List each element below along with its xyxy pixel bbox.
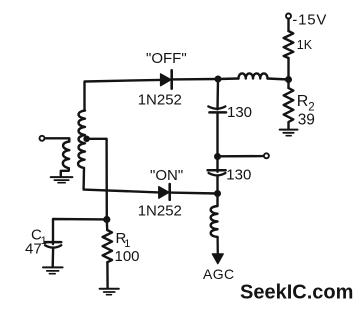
svg-text:47: 47	[25, 241, 42, 258]
transformer T1 primary	[63, 142, 69, 169]
wire	[106, 220, 109, 231]
diode "OFF" 1N252	[161, 70, 172, 88]
svg-text:1K: 1K	[297, 38, 313, 52]
wire	[216, 194, 218, 207]
wire	[45, 138, 69, 141]
transformer T1 secondary	[78, 111, 85, 169]
terminal output	[264, 153, 269, 158]
capacitor 130 (upper)	[208, 106, 226, 112]
wire	[61, 168, 69, 176]
wire	[216, 79, 219, 109]
label 100	[115, 248, 140, 265]
label R1	[116, 230, 131, 250]
label "OFF"	[146, 50, 187, 67]
label 130 (upper)	[227, 104, 252, 121]
resistor R2	[284, 88, 294, 129]
wire	[268, 79, 289, 80]
terminal input	[40, 136, 45, 141]
wire	[287, 80, 289, 89]
ground	[51, 177, 73, 183]
watermark SeekIC.com	[240, 282, 353, 304]
label -15V	[292, 11, 327, 28]
wire	[106, 262, 109, 287]
svg-text:1N252: 1N252	[138, 91, 182, 108]
ground	[43, 267, 63, 273]
resistor R1 100	[103, 230, 112, 262]
terminal -15V	[286, 14, 291, 19]
svg-text:100: 100	[115, 248, 140, 265]
label 39	[298, 112, 315, 129]
wire	[216, 176, 218, 194]
wire	[216, 157, 218, 172]
node E (C1/R1 junction)	[103, 216, 110, 223]
wire AGC arrow stem	[216, 237, 218, 255]
svg-text:-15V: -15V	[292, 11, 327, 28]
svg-text:130: 130	[227, 104, 252, 121]
AGC arrowhead	[212, 254, 223, 264]
svg-text:"ON": "ON"	[150, 167, 183, 184]
node center tap	[83, 136, 90, 143]
ground	[280, 130, 298, 136]
node C	[214, 153, 221, 160]
label AGC	[203, 266, 235, 282]
diode "ON" 1N252	[159, 184, 170, 200]
svg-text:"OFF": "OFF"	[146, 50, 187, 67]
inductor L1	[239, 73, 268, 78]
wire	[287, 58, 289, 80]
wire	[218, 155, 264, 158]
wire center tap	[87, 139, 107, 220]
inductor L2	[211, 206, 218, 237]
label 47	[25, 241, 42, 258]
label "ON"	[150, 167, 183, 184]
svg-text:130: 130	[226, 166, 251, 183]
node A	[285, 76, 292, 83]
wire	[218, 77, 239, 80]
ground	[100, 289, 119, 295]
svg-text:39: 39	[298, 112, 315, 129]
wire	[52, 248, 55, 266]
label 1N252 (ON)	[138, 203, 182, 220]
svg-text:SeekIC.com: SeekIC.com	[240, 282, 353, 304]
label C1	[31, 226, 47, 247]
wire	[172, 78, 219, 81]
svg-text:R: R	[297, 93, 309, 110]
capacitor 130 (lower)	[208, 170, 226, 175]
capacitor C1 47	[45, 242, 62, 248]
node D	[214, 190, 221, 197]
resistor 1K	[284, 31, 294, 58]
node B	[215, 76, 222, 83]
wire secondary bottom to ON diode	[84, 168, 159, 192]
wire	[216, 114, 218, 157]
wire	[287, 19, 289, 31]
label 130 (lower)	[226, 166, 251, 183]
svg-text:1N252: 1N252	[138, 203, 182, 220]
label R2	[297, 93, 315, 114]
wire	[170, 191, 218, 194]
wire	[85, 80, 161, 111]
label 1N252 (OFF)	[138, 91, 182, 108]
svg-text:AGC: AGC	[203, 266, 235, 282]
label 1K	[297, 38, 313, 52]
wire	[53, 219, 107, 244]
